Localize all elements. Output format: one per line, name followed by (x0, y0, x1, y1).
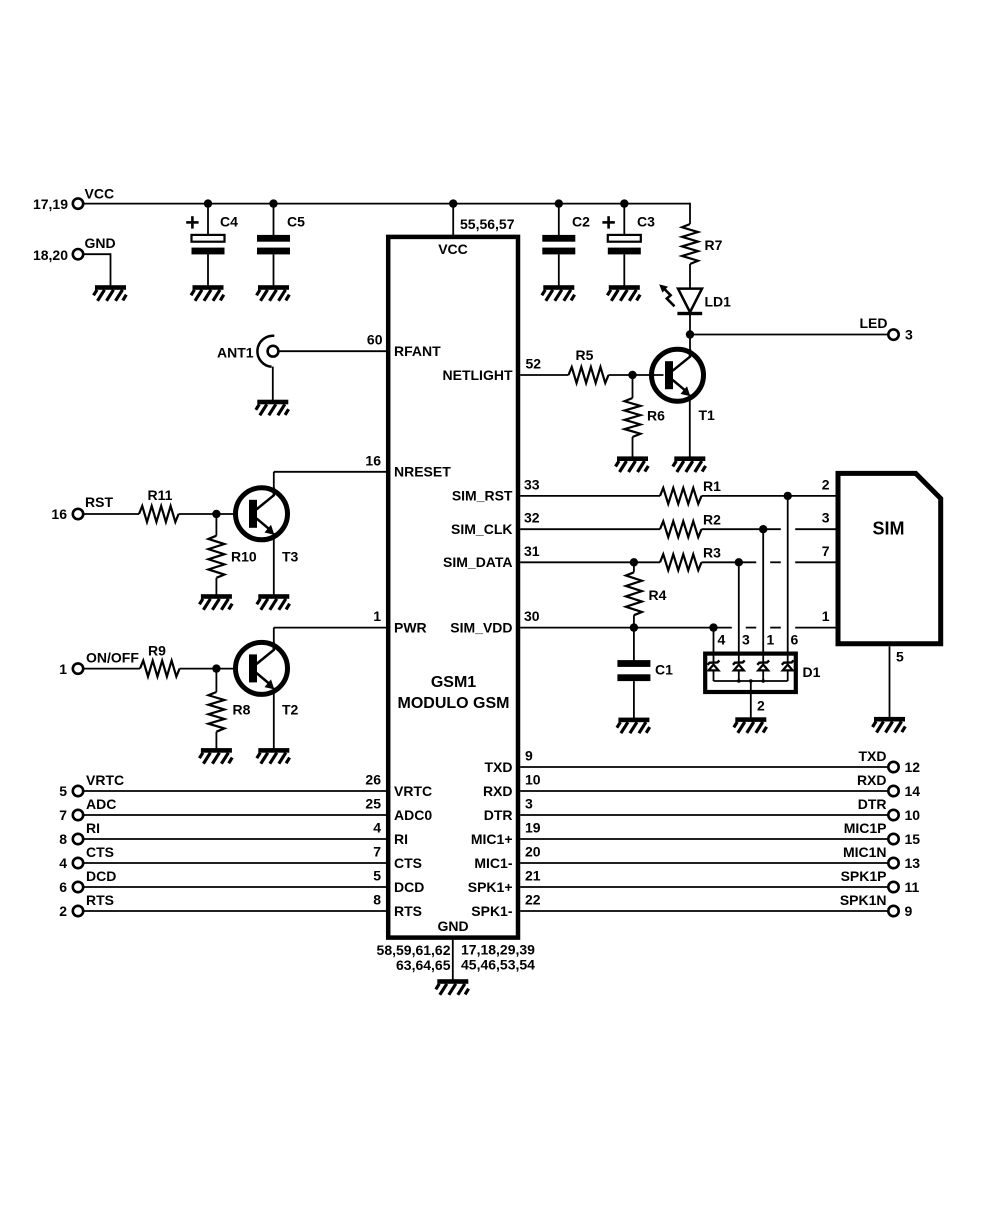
svg-text:4: 4 (718, 632, 726, 648)
led LD1 (678, 289, 702, 313)
wire SIM_DATA left (520, 561, 660, 563)
wire R11 to base (179, 513, 248, 515)
wire R8 top (215, 669, 217, 692)
svg-text:60: 60 (367, 332, 383, 348)
svg-text:MIC1-: MIC1- (474, 855, 512, 871)
wire R7 to LD1 (689, 264, 691, 289)
svg-text:DTR: DTR (484, 807, 513, 823)
wire RTS row (84, 910, 387, 912)
svg-text:GND: GND (85, 235, 116, 251)
junction T2 base (212, 664, 220, 672)
svg-text:SIM_CLK: SIM_CLK (451, 521, 512, 537)
svg-text:R8: R8 (233, 702, 251, 718)
svg-text:58,59,61,62: 58,59,61,62 (377, 942, 451, 958)
node MIC1P terminal 15 (888, 834, 898, 844)
svg-text:2: 2 (757, 698, 765, 714)
resistor R2 (660, 521, 702, 537)
node RI terminal 8 (73, 834, 83, 844)
node SPK1P terminal 11 (888, 882, 898, 892)
svg-text:LD1: LD1 (705, 294, 732, 310)
svg-text:TXD: TXD (859, 748, 887, 764)
wire GND terminal to ground (84, 253, 111, 255)
junction C5 (269, 199, 277, 207)
wire R6 bottom (632, 437, 634, 457)
ground T1 (673, 456, 706, 472)
junction R4 top (630, 558, 638, 566)
capacitor C1 (617, 660, 650, 667)
resistor R10 (208, 536, 224, 578)
junction SIM_RST (784, 492, 792, 500)
diode array D1 box (705, 654, 796, 692)
ground ANT1 (256, 400, 289, 416)
wire C5 bottom (273, 254, 275, 285)
svg-text:D1: D1 (803, 664, 821, 680)
wire D1 pin2 tap (750, 681, 752, 718)
svg-text:15: 15 (905, 831, 921, 847)
svg-text:1: 1 (373, 608, 381, 624)
wire D1 pin4 vertical (713, 628, 715, 662)
svg-text:33: 33 (524, 476, 540, 492)
capacitor C4 (186, 221, 198, 224)
wire SPK1+ row (520, 886, 888, 888)
capacitor C3 (602, 221, 614, 224)
svg-text:4: 4 (59, 855, 67, 871)
resistor R3 (660, 554, 702, 570)
wire LD1 to node (689, 315, 691, 335)
wire VRTC row (84, 790, 387, 792)
junction VCC pin 55,56,57 (449, 199, 457, 207)
node DTR terminal 10 (888, 810, 898, 820)
junction SIM_DATA (735, 558, 743, 566)
junction SIM_CLK (759, 525, 767, 533)
svg-text:MIC1N: MIC1N (843, 844, 887, 860)
svg-text:10: 10 (525, 772, 541, 788)
resistor R11 (139, 506, 179, 522)
wire R8 bottom (215, 732, 217, 749)
svg-text:C1: C1 (655, 662, 673, 678)
svg-text:3: 3 (525, 796, 533, 812)
wire SIM pin5 (889, 646, 891, 717)
wire C1 bottom (633, 681, 635, 718)
wire SIM_RST right (702, 495, 837, 497)
ground C1 (617, 718, 650, 734)
svg-text:55,56,57: 55,56,57 (460, 216, 515, 232)
svg-text:RTS: RTS (394, 903, 422, 919)
svg-text:C3: C3 (637, 213, 655, 229)
svg-text:VRTC: VRTC (394, 783, 432, 799)
node RXD terminal 14 (888, 786, 898, 796)
ground D1 (734, 717, 767, 733)
ground C2 (542, 285, 575, 301)
svg-text:63,64,65: 63,64,65 (396, 957, 451, 973)
svg-text:7: 7 (59, 807, 67, 823)
svg-text:R2: R2 (703, 512, 721, 528)
svg-text:32: 32 (524, 510, 540, 526)
resistor R8 (208, 692, 224, 732)
svg-text:20: 20 (525, 844, 541, 860)
wire VCC to module (452, 204, 454, 236)
wire T1 collector (689, 335, 691, 352)
svg-text:T1: T1 (699, 407, 716, 423)
junction C2 (555, 199, 563, 207)
junction C3 (620, 199, 628, 207)
wire T1 emitter (689, 395, 691, 457)
wire MIC1+ row (520, 838, 888, 840)
node ADC terminal 7 (73, 810, 83, 820)
svg-text:12: 12 (905, 759, 921, 775)
svg-text:ADC: ADC (86, 796, 116, 812)
svg-text:ON/OFF: ON/OFF (86, 650, 139, 666)
svg-text:9: 9 (905, 903, 913, 919)
diodes D1 cells (708, 660, 720, 664)
node LED terminal 3 (888, 329, 898, 339)
svg-text:1: 1 (59, 661, 67, 677)
ground T3 (257, 594, 290, 610)
svg-text:CTS: CTS (394, 855, 422, 871)
svg-text:45,46,53,54: 45,46,53,54 (461, 957, 535, 973)
wire TXD row (520, 766, 888, 768)
ground R10 (199, 594, 232, 610)
wire DCD row (84, 886, 387, 888)
svg-text:SPK1+: SPK1+ (468, 879, 513, 895)
resistor R7 (682, 224, 698, 264)
wire D1 pin6 vertical (787, 496, 789, 662)
svg-text:RST: RST (85, 494, 113, 510)
node RTS terminal 2 (73, 906, 83, 916)
ground module GND (436, 979, 469, 995)
wire MIC1- row (520, 862, 888, 864)
svg-text:R7: R7 (705, 237, 723, 253)
resistor R1 (660, 488, 702, 504)
svg-text:NRESET: NRESET (394, 464, 451, 480)
svg-text:MODULO GSM: MODULO GSM (398, 695, 510, 712)
svg-text:RFANT: RFANT (394, 343, 441, 359)
wire C3 top (623, 204, 625, 236)
wire SIM_RST left (520, 495, 660, 497)
resistor R5 (569, 367, 609, 383)
svg-text:13: 13 (905, 855, 921, 871)
wire SIM_CLK left (520, 528, 660, 530)
svg-text:5: 5 (373, 868, 381, 884)
module GSM1 body (388, 237, 518, 938)
svg-text:8: 8 (59, 831, 67, 847)
capacitor C5 (257, 235, 290, 242)
svg-text:SIM_RST: SIM_RST (452, 487, 513, 503)
svg-text:VRTC: VRTC (86, 772, 124, 788)
ground R6 (616, 456, 649, 472)
wire SIM_DATA dash (770, 561, 781, 563)
svg-text:RXD: RXD (857, 772, 887, 788)
svg-text:1: 1 (767, 632, 775, 648)
svg-text:RXD: RXD (483, 783, 513, 799)
svg-text:GSM1: GSM1 (431, 674, 476, 691)
svg-text:SPK1-: SPK1- (471, 903, 513, 919)
svg-text:R10: R10 (231, 548, 257, 564)
ground C4 (191, 285, 224, 301)
transistor T1 (652, 349, 704, 401)
node VCC terminal 17,19 (73, 198, 83, 208)
wire SIM_VDD dash1 (746, 627, 756, 629)
svg-text:RI: RI (394, 831, 408, 847)
wire R10 top (215, 514, 217, 536)
svg-text:VCC: VCC (438, 241, 468, 257)
wire SIM_CLK mid (702, 528, 781, 530)
wire C5 top (273, 204, 275, 236)
svg-text:PWR: PWR (394, 619, 427, 635)
wire SIM_DATA right (795, 561, 836, 563)
node CTS terminal 4 (73, 858, 83, 868)
svg-text:8: 8 (373, 892, 381, 908)
ground GND terminal (94, 285, 127, 301)
svg-text:26: 26 (365, 772, 381, 788)
wire C2 bottom (558, 254, 560, 285)
svg-text:ANT1: ANT1 (217, 345, 254, 361)
wire VCC rail (84, 203, 691, 205)
svg-text:SPK1N: SPK1N (840, 892, 887, 908)
node VRTC terminal 5 (73, 786, 83, 796)
wire LED node to terminal (690, 334, 888, 336)
ground R8 (199, 748, 232, 764)
svg-text:6: 6 (59, 879, 67, 895)
wire module GND (452, 940, 454, 980)
svg-text:SIM: SIM (873, 519, 905, 539)
svg-text:R5: R5 (576, 347, 594, 363)
svg-text:2: 2 (59, 903, 67, 919)
wire PWR (274, 627, 387, 629)
svg-text:SIM_DATA: SIM_DATA (443, 554, 512, 570)
wire SIM_CLK right (795, 528, 836, 530)
svg-text:16: 16 (51, 506, 67, 522)
svg-text:C5: C5 (287, 214, 305, 230)
wire C4 top (207, 204, 209, 236)
svg-text:R3: R3 (703, 545, 721, 561)
wire SIM_VDD right (795, 627, 836, 629)
svg-text:7: 7 (822, 543, 830, 559)
svg-text:MIC1+: MIC1+ (471, 831, 513, 847)
wire RST to R11 (84, 513, 140, 515)
svg-text:3: 3 (905, 327, 913, 343)
wire SIM_VDD left (520, 627, 732, 629)
junction D1 pin4 node (709, 623, 717, 631)
wire T3 emitter (273, 533, 275, 595)
wire RI row (84, 838, 387, 840)
wire D1 pin3 vertical (738, 562, 740, 662)
svg-text:17,18,29,39: 17,18,29,39 (461, 942, 535, 958)
ground C5 (257, 285, 290, 301)
resistor R9 (140, 661, 180, 677)
svg-text:GND: GND (437, 918, 468, 934)
svg-text:19: 19 (525, 820, 541, 836)
antenna ANT1 (257, 336, 274, 367)
svg-text:ADC0: ADC0 (394, 807, 432, 823)
svg-text:R11: R11 (148, 487, 173, 503)
capacitor C2 (542, 235, 575, 242)
wire ADC row (84, 814, 387, 816)
svg-text:VCC: VCC (85, 186, 115, 202)
svg-text:C2: C2 (572, 213, 590, 229)
svg-text:11: 11 (905, 879, 920, 895)
wire ON/OFF to R9 (84, 668, 141, 670)
svg-text:25: 25 (365, 796, 381, 812)
svg-text:CTS: CTS (86, 844, 114, 860)
junction R4 bottom (630, 623, 638, 631)
wire SIM_VDD dash2 (770, 627, 781, 629)
svg-text:RTS: RTS (86, 892, 114, 908)
wire D1 bus (714, 680, 788, 682)
svg-text:SPK1P: SPK1P (841, 868, 887, 884)
svg-text:C4: C4 (220, 214, 238, 230)
svg-text:TXD: TXD (485, 759, 513, 775)
wire C3 bottom (623, 254, 625, 285)
node GND terminal 18,20 (73, 249, 83, 259)
transistor T3 (236, 488, 288, 540)
svg-text:6: 6 (791, 632, 799, 648)
wire C2 top (558, 204, 560, 236)
junction R6 top (628, 371, 636, 379)
junction C4 (204, 199, 212, 207)
wire R6 top (632, 375, 634, 398)
svg-text:R4: R4 (649, 587, 667, 603)
svg-text:SIM_VDD: SIM_VDD (450, 619, 512, 635)
wire SIM_DATA mid (702, 561, 757, 563)
node ON/OFF terminal 1 (73, 663, 83, 673)
svg-text:R9: R9 (148, 643, 166, 659)
node SPK1N terminal 9 (888, 906, 898, 916)
svg-text:3: 3 (742, 632, 750, 648)
svg-text:DTR: DTR (858, 796, 887, 812)
wire C1 top (633, 628, 635, 661)
wire R5 to base (609, 374, 664, 376)
svg-text:52: 52 (526, 356, 542, 372)
svg-text:7: 7 (373, 844, 381, 860)
svg-text:22: 22 (525, 892, 541, 908)
node RST terminal 16 (73, 509, 83, 519)
svg-text:R6: R6 (647, 408, 665, 424)
svg-text:30: 30 (524, 608, 540, 624)
svg-text:NETLIGHT: NETLIGHT (443, 367, 513, 383)
svg-text:10: 10 (905, 807, 921, 823)
wire R9 to base (180, 668, 248, 670)
node DCD terminal 6 (73, 882, 83, 892)
svg-text:1: 1 (822, 608, 830, 624)
node MIC1N terminal 13 (888, 858, 898, 868)
svg-text:21: 21 (525, 868, 541, 884)
junction T3 base (212, 510, 220, 518)
svg-text:LED: LED (860, 315, 888, 331)
junction LED node (686, 330, 694, 338)
svg-text:T3: T3 (282, 548, 299, 564)
wire CTS row (84, 862, 387, 864)
wire DTR row (520, 814, 888, 816)
svg-text:5: 5 (59, 783, 67, 799)
svg-text:T2: T2 (282, 702, 299, 718)
resistor R6 (625, 398, 641, 437)
svg-text:4: 4 (373, 820, 381, 836)
wire C4 bottom (207, 254, 209, 285)
ground SIM (873, 717, 906, 733)
svg-text:9: 9 (525, 748, 533, 764)
resistor R4 (633, 562, 635, 572)
svg-text:MIC1P: MIC1P (844, 820, 887, 836)
wire SPK1- row (520, 910, 888, 912)
svg-text:18,20: 18,20 (33, 247, 68, 263)
ground C3 (607, 285, 640, 301)
wire R10 bottom (215, 578, 217, 595)
ground T2 (257, 748, 290, 764)
svg-text:17,19: 17,19 (33, 196, 68, 212)
transistor T2 (236, 642, 288, 694)
svg-text:31: 31 (524, 543, 540, 559)
wire R7 top (689, 203, 691, 224)
svg-text:RI: RI (86, 820, 100, 836)
svg-text:3: 3 (822, 510, 830, 526)
svg-text:R1: R1 (703, 478, 721, 494)
wire ANT1 to RFANT (279, 350, 387, 352)
wire NRESET (274, 471, 387, 473)
wire D1 pin1 vertical (762, 529, 764, 662)
svg-text:2: 2 (822, 476, 830, 492)
node TXD terminal 12 (888, 762, 898, 772)
svg-text:DCD: DCD (86, 868, 116, 884)
svg-text:14: 14 (905, 783, 921, 799)
wire T2 emitter (273, 688, 275, 749)
svg-text:5: 5 (896, 649, 904, 665)
connector SIM (838, 473, 941, 643)
wire RXD row (520, 790, 888, 792)
svg-text:16: 16 (365, 452, 381, 468)
svg-text:DCD: DCD (394, 879, 424, 895)
wire ANT1 stem (272, 367, 274, 401)
wire NETLIGHT (520, 374, 568, 376)
